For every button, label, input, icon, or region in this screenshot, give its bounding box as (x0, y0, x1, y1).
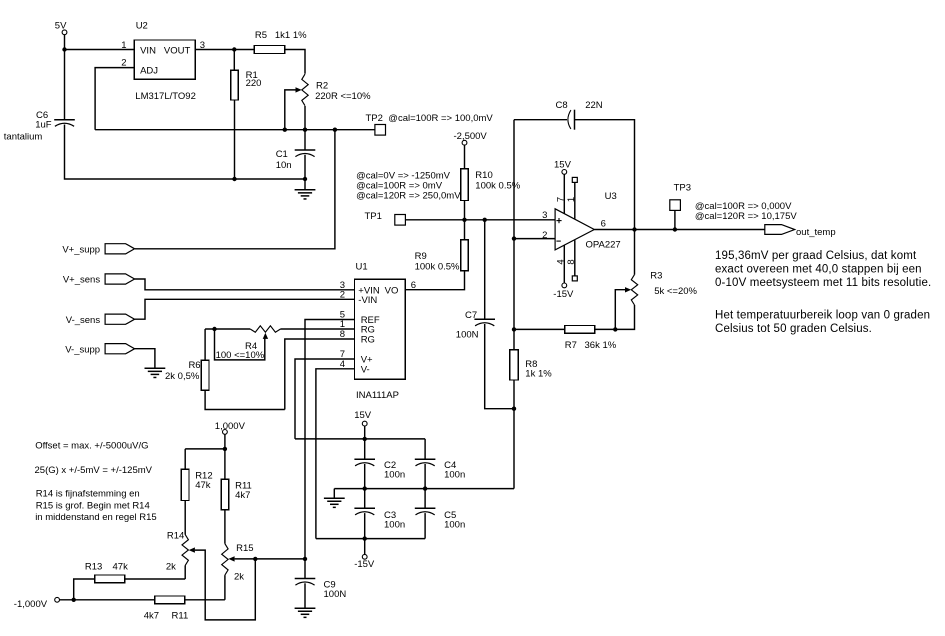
wire R14 wiper (195, 550, 255, 620)
wire V+_sens to pin 3 (135, 279, 355, 290)
wire R2 bottom (304, 106, 306, 130)
U1 pin numbers (340, 280, 416, 370)
svg-text:100n: 100n (444, 520, 465, 531)
svg-text:1k 1%: 1k 1% (525, 369, 552, 380)
wire ADJ pin 2 (95, 68, 134, 130)
wire C1 to ground (304, 155, 306, 190)
op-amp U3 OPA227 (542, 191, 621, 250)
wire C4 to mid rail (424, 464, 426, 489)
svg-text:1: 1 (121, 40, 126, 51)
svg-text:220: 220 (246, 78, 262, 89)
wire R6 bottom to RG pin 8 (205, 390, 285, 409)
wire output to R3 (634, 230, 636, 275)
svg-text:-VIN: -VIN (358, 295, 377, 306)
op-amp power pin 4 (555, 245, 566, 283)
wire R15 to R11h line (224, 575, 226, 600)
resistor R6 2k 0.5% (165, 360, 209, 390)
svg-text:100N: 100N (324, 589, 347, 600)
wire R4 wiper (215, 329, 265, 360)
svg-text:R10: R10 (475, 170, 492, 181)
wire R2 wiper (285, 90, 296, 130)
svg-text:4: 4 (555, 259, 566, 264)
svg-text:R7: R7 (565, 340, 577, 351)
wire VOUT to R1 (233, 50, 235, 71)
svg-text:1,000V: 1,000V (215, 421, 246, 432)
svg-text:TP3: TP3 (674, 183, 691, 194)
svg-text:Celsius tot 50 graden Celsius.: Celsius tot 50 graden Celsius. (715, 323, 872, 335)
wire R8 bottom to ground rail (513, 380, 515, 489)
potentiometer R3 5k <=20% (625, 270, 698, 305)
wire R3 bottom to R7 (595, 305, 635, 329)
svg-text:1: 1 (566, 197, 577, 202)
op-amp offset pin 8 (566, 240, 577, 281)
junction C1/ground rail (303, 177, 307, 181)
junction wiper tie (253, 557, 257, 561)
svg-text:R15 is grof. Begin met R14: R15 is grof. Begin met R14 (36, 501, 150, 512)
ground mid rail (324, 498, 345, 507)
capacitor C1 10n (276, 149, 316, 171)
ground below C1 (295, 190, 316, 199)
svg-text:0-10V meetsysteem met 11 bits: 0-10V meetsysteem met 11 bits resolutie. (715, 277, 931, 289)
svg-text:V-_supp: V-_supp (65, 344, 100, 355)
power -2,500V (454, 131, 488, 145)
svg-text:OPA227: OPA227 (586, 239, 621, 250)
power 5V (55, 21, 67, 35)
resistor R11 4k7 vertical (221, 479, 252, 510)
wire TP1 node to R9 (464, 220, 466, 240)
svg-text:@cal=120R => 250,0mV: @cal=120R => 250,0mV (356, 191, 461, 202)
test point TP3 (670, 183, 798, 230)
wire -1V up to R13 (74, 579, 95, 600)
wire R10 to TP1 node (464, 201, 466, 220)
junction C2/C3 (363, 486, 367, 490)
wire to U2 VIN pin 1 (65, 49, 135, 51)
svg-text:LM317L/TO92: LM317L/TO92 (135, 91, 196, 102)
svg-text:TP2: TP2 (366, 113, 383, 124)
wire V-_supp to ground (135, 349, 155, 368)
svg-text:100N: 100N (456, 329, 479, 340)
svg-text:Het temperatuurbereik loop van: Het temperatuurbereik loop van 0 graden (715, 310, 930, 322)
connector V-_supp (65, 344, 134, 356)
note right text block (715, 250, 931, 335)
wire C2 to mid rail (364, 464, 366, 489)
wire inverting node down (513, 239, 515, 350)
wire C3 to -15V rail (364, 513, 366, 539)
junction R3 wiper/R7 (613, 327, 617, 331)
wire R11 to R15 (224, 510, 226, 544)
wire ADJ net to C1 (304, 130, 306, 150)
wire -2.5V to R10 (464, 145, 466, 169)
svg-text:4k7: 4k7 (144, 610, 159, 621)
svg-text:Offset = max. +/-5000uV/G: Offset = max. +/-5000uV/G (35, 440, 148, 451)
junction R2/C1 (303, 128, 307, 132)
node TP1 junction (462, 218, 466, 222)
capacitor C3 100n (354, 508, 405, 530)
capacitor C7 100N (456, 310, 495, 341)
wire to V+_supp (135, 130, 335, 249)
potentiometer R4 100 <=10% (216, 326, 281, 361)
capacitor C8 22N (556, 100, 603, 130)
ground C9 (295, 608, 316, 617)
svg-text:TP1: TP1 (365, 211, 382, 222)
wire rail to C4 (424, 439, 426, 459)
wire VOUT pin 3 to R5 (195, 49, 254, 51)
resistor R5 1k1 1% (254, 30, 307, 53)
IC U1 INA111AP (355, 262, 406, 401)
node VOUT junction (232, 47, 236, 51)
svg-text:22N: 22N (585, 100, 603, 111)
wire REF pin 5 (305, 320, 355, 559)
svg-text:R5: R5 (255, 30, 267, 41)
svg-text:8: 8 (566, 259, 577, 264)
wire op-amp output (594, 229, 765, 231)
wire rail to R11 (224, 449, 226, 480)
power 1,000V (215, 421, 246, 435)
svg-text:47k: 47k (113, 561, 129, 572)
svg-text:36k 1%: 36k 1% (585, 340, 617, 351)
wire mid rail to C3 (364, 489, 366, 509)
wire -15V rail (316, 538, 425, 540)
svg-text:U3: U3 (605, 191, 617, 202)
resistor R9 100k 0.5% (415, 240, 469, 272)
capacitor C5 100n (415, 508, 465, 530)
svg-text:R11: R11 (172, 610, 189, 621)
resistor R7 36k 1% (565, 326, 617, 352)
power -15V rail (354, 554, 375, 570)
junction REF/C9 (303, 557, 307, 561)
svg-text:INA111AP: INA111AP (356, 390, 399, 401)
resistor R13 47k (85, 561, 128, 583)
svg-text:195,36mV per graad Celsius, da: 195,36mV per graad Celsius, dat komt (715, 250, 917, 262)
test point TP1 (365, 211, 406, 225)
wire V- pin 4 to -15V rail (316, 369, 355, 539)
svg-text:@cal=120R => 10,175V: @cal=120R => 10,175V (695, 211, 797, 222)
wire RG pin 8 (285, 339, 355, 410)
svg-text:VO: VO (385, 285, 399, 296)
svg-text:V+_sens: V+_sens (63, 275, 100, 286)
wire C5 to -15V rail (424, 513, 426, 539)
svg-text:-15V: -15V (553, 289, 574, 300)
junction V+_supp branch (333, 128, 337, 132)
wire 1V down (224, 434, 226, 449)
svg-text:C1: C1 (276, 149, 288, 160)
wire -1V to R11h (60, 599, 155, 601)
junction R4 wiper return (212, 327, 216, 331)
wire ADJ net horizontal (95, 129, 375, 131)
svg-text:-1,000V: -1,000V (14, 599, 48, 610)
svg-text:15V: 15V (354, 410, 372, 421)
svg-text:C8: C8 (556, 100, 568, 111)
resistor R10 100k 0.5% (461, 169, 521, 201)
junction -15V rail (363, 536, 367, 540)
svg-text:@cal=100R => 100,0mV: @cal=100R => 100,0mV (388, 113, 493, 124)
connector out_temp (765, 225, 836, 238)
svg-text:V+_supp: V+_supp (62, 244, 100, 255)
wire C8 right to output (575, 120, 635, 230)
svg-text:220R <=10%: 220R <=10% (315, 91, 371, 102)
svg-text:tantalium: tantalium (4, 132, 43, 143)
svg-text:-2,500V: -2,500V (454, 131, 488, 142)
capacitor C9 100N (295, 579, 347, 601)
wire R12 to R14 (184, 501, 186, 535)
svg-text:R15: R15 (236, 543, 253, 554)
svg-text:47k: 47k (195, 480, 211, 491)
wire R4 line to R6 (204, 329, 206, 360)
wire C9 to ground (304, 583, 306, 608)
svg-text:6: 6 (411, 280, 416, 291)
svg-text:4k7: 4k7 (235, 490, 250, 501)
wire to -15V symbol (364, 539, 366, 555)
wire 15V rail (295, 438, 425, 440)
wire rail to C2 (364, 439, 366, 459)
svg-text:100n: 100n (384, 469, 405, 480)
junction TP3 (673, 227, 677, 231)
wire TP1 node to C7 (484, 220, 486, 319)
junction -1V (72, 598, 76, 602)
svg-text:1uF: 1uF (35, 120, 52, 131)
resistor R11 4k7 horizontal (144, 596, 189, 622)
power 15V op-amp (554, 160, 572, 175)
resistor R8 1k 1% (510, 350, 553, 380)
ground V-_supp (145, 368, 166, 377)
wire C7 to R8 bottom (485, 324, 514, 409)
op-amp offset pin 1 (566, 177, 577, 219)
svg-text:R2: R2 (316, 81, 328, 92)
power 15V rail (354, 410, 372, 426)
svg-text:10n: 10n (276, 160, 292, 171)
junction output/feedback (632, 227, 636, 231)
junction C4/C5 (423, 486, 427, 490)
svg-text:100n: 100n (444, 469, 465, 480)
svg-text:R13: R13 (85, 561, 102, 572)
capacitor C4 100n (415, 459, 465, 480)
svg-text:V-: V- (361, 365, 370, 376)
svg-text:1k1 1%: 1k1 1% (275, 30, 307, 41)
svg-text:exact overeen met 40,0 stappen: exact overeen met 40,0 stappen bij een (715, 263, 922, 275)
svg-text:5V: 5V (55, 21, 67, 32)
connector V-_sens (66, 314, 135, 326)
svg-text:2k: 2k (166, 561, 176, 572)
svg-text:VIN: VIN (140, 46, 156, 57)
wire R14 to R13 line (184, 565, 186, 579)
wire C8 left (514, 119, 567, 121)
svg-text:7: 7 (555, 197, 566, 202)
svg-text:25(G) x +/-5mV = +/-125mV: 25(G) x +/-5mV = +/-125mV (35, 465, 153, 476)
node 5V junction (62, 47, 66, 51)
wire V+ pin 7 to 15V rail (295, 359, 355, 439)
svg-text:in middenstand en regel R15: in middenstand en regel R15 (35, 512, 156, 523)
connector V+_sens (63, 274, 135, 286)
svg-text:2k: 2k (234, 572, 244, 583)
wire V-_sens to pin 2 (135, 299, 355, 319)
junction 15V rail (363, 437, 367, 441)
svg-text:V-_sens: V-_sens (66, 315, 101, 326)
wire rail to R12 (184, 449, 186, 469)
svg-text:5k <=20%: 5k <=20% (654, 286, 697, 297)
wire R11h to R15 bottom (185, 599, 225, 601)
potentiometer R2 220R <=10% (296, 74, 372, 106)
wire R4 left (205, 328, 250, 330)
wire inverting input vertical (513, 120, 515, 239)
junction R2 wiper on ADJ net (283, 128, 287, 132)
IC U2 LM317L/TO92 (121, 20, 205, 102)
junction C7 branch (483, 218, 487, 222)
wire ground mid rail (334, 488, 514, 490)
wire TP1 node to op-amp + (405, 219, 555, 221)
svg-text:R14: R14 (167, 531, 184, 542)
capacitor C6 1uF tantalium (4, 110, 75, 143)
junction C7/R8 (512, 407, 516, 411)
wire RG pin 1 (281, 328, 355, 330)
wire R13 to R14 bottom (125, 578, 185, 580)
wire REF to C9 (304, 559, 306, 579)
wire R7 to R8 top (514, 328, 565, 330)
wire 5V to C6 (64, 50, 66, 120)
power -1,000V (14, 597, 60, 610)
power -15V op-amp (553, 283, 574, 300)
wire C6 to ground rail (65, 125, 306, 180)
test point TP2 (366, 113, 494, 135)
wire R9 to U1 VO pin 6 (405, 271, 464, 290)
svg-text:2k 0,5%: 2k 0,5% (165, 371, 200, 382)
note offset text (35, 440, 157, 523)
label @cal notes (356, 170, 461, 201)
wire 1V rail (185, 448, 225, 450)
svg-text:VOUT: VOUT (164, 46, 191, 57)
svg-text:-15V: -15V (354, 559, 375, 570)
wire 5V down (64, 35, 66, 50)
svg-text:100k 0.5%: 100k 0.5% (415, 261, 460, 272)
junction R1 bottom (232, 177, 236, 181)
wire R5 to R2 (285, 50, 305, 74)
capacitor C2 100n (354, 459, 405, 480)
junction inverting input (512, 236, 516, 240)
junction R7/R8/inverting (512, 327, 516, 331)
wire 15V down (364, 426, 366, 439)
svg-text:R3: R3 (650, 270, 662, 281)
svg-text:R6: R6 (188, 360, 200, 371)
potentiometer R14 2k (166, 531, 195, 573)
svg-text:ADJ: ADJ (140, 65, 158, 76)
connector V+_supp (62, 244, 134, 256)
svg-text:15V: 15V (554, 160, 572, 171)
wire R3 wiper (615, 290, 625, 330)
wire mid rail to C5 (424, 489, 426, 509)
wire R1 to ground rail (234, 100, 236, 179)
wire R15 wiper to REF (235, 558, 305, 560)
svg-text:2: 2 (542, 230, 547, 241)
svg-text:U2: U2 (136, 20, 148, 31)
svg-text:RG: RG (361, 335, 375, 346)
svg-text:C7: C7 (465, 310, 477, 321)
svg-text:U1: U1 (356, 262, 368, 273)
wire ground stub (333, 489, 335, 498)
op-amp power pin 7 (555, 174, 566, 213)
svg-text:6: 6 (601, 218, 606, 229)
svg-text:100n: 100n (384, 520, 405, 531)
junction 1V rail (223, 447, 227, 451)
svg-text:3: 3 (542, 210, 547, 221)
svg-text:R14 is fijnafstemming en: R14 is fijnafstemming en (36, 489, 140, 500)
potentiometer R15 2k (222, 543, 254, 583)
svg-text:out_temp: out_temp (796, 227, 836, 238)
resistor R1 220 (231, 70, 262, 100)
wire pin 2 inverting input (514, 238, 555, 240)
resistor R12 47k (181, 469, 212, 500)
